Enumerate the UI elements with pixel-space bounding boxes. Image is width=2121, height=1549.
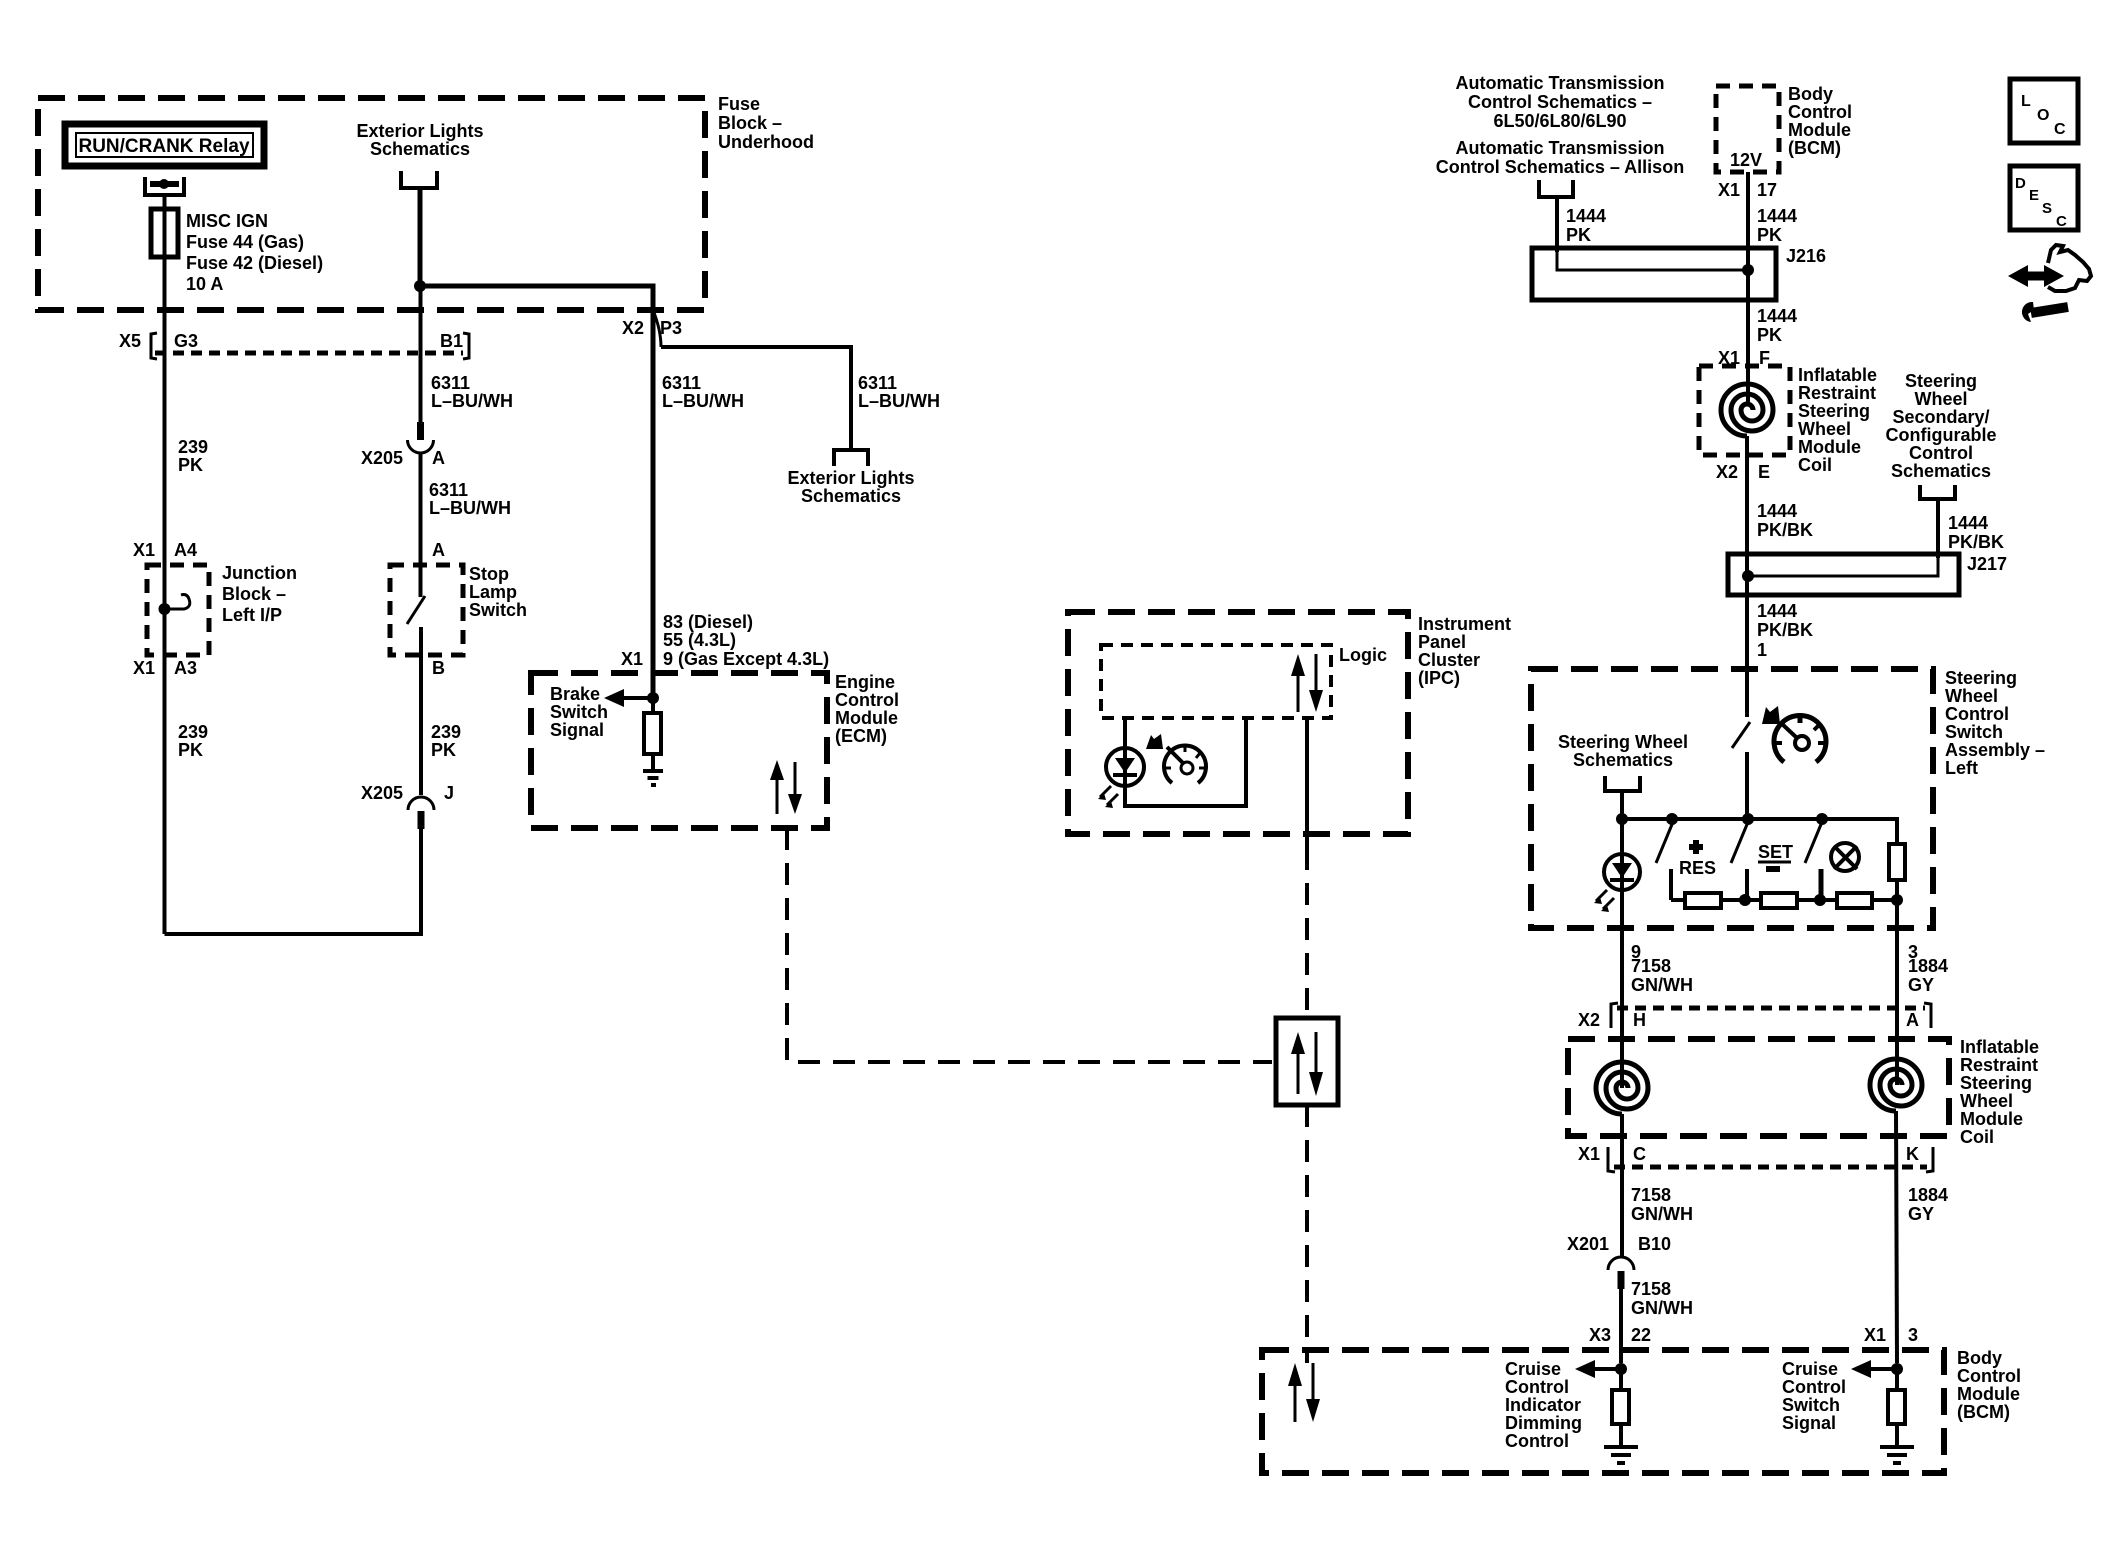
wire into coil top	[1746, 366, 1750, 405]
ECM dashed box	[531, 673, 827, 828]
svg-text:C: C	[2056, 213, 2067, 230]
wire 6311 stop lamp branch	[419, 286, 423, 424]
coil spiral left	[1596, 1062, 1648, 1114]
cancel switch blade	[1805, 822, 1822, 863]
svg-text:1444: 1444	[1757, 601, 1797, 621]
svg-text:O: O	[2037, 107, 2049, 124]
off-page connector bracket secondary	[1920, 485, 1955, 499]
SDM coil top dashed box	[1699, 366, 1790, 455]
wire relay to fuse	[163, 195, 167, 212]
logic box IPC	[1101, 645, 1331, 718]
svg-text:6311: 6311	[431, 373, 470, 393]
connector pass-through slash X2 P3	[653, 310, 661, 347]
wire below stop lamp switch	[419, 627, 423, 795]
svg-text:A3: A3	[174, 658, 197, 678]
svg-text:10 A: 10 A	[186, 274, 223, 294]
LED emission arrows assembly	[1596, 890, 1607, 901]
svg-text:Control: Control	[1505, 1377, 1569, 1397]
svg-text:G3: G3	[174, 331, 198, 351]
serial data arrows ECM	[776, 776, 779, 814]
svg-text:X205: X205	[361, 783, 403, 803]
splice pack J216	[1532, 248, 1776, 300]
svg-text:3: 3	[1908, 1325, 1918, 1345]
svg-text:D: D	[2015, 175, 2026, 192]
svg-text:Module: Module	[1957, 1384, 2020, 1404]
connector X205 A male stub	[417, 422, 424, 440]
svg-text:(BCM): (BCM)	[1788, 138, 1841, 158]
svg-text:1884: 1884	[1908, 956, 1948, 976]
svg-text:Restraint: Restraint	[1960, 1055, 2038, 1075]
stop lamp switch dashed box	[390, 565, 463, 655]
fuse block underhood dashed box	[38, 98, 705, 310]
wire resistor to ground BCM left	[1619, 1424, 1623, 1447]
svg-text:Control: Control	[1909, 443, 1973, 463]
svg-text:J: J	[444, 783, 454, 803]
svg-text:7158: 7158	[1631, 1185, 1671, 1205]
serial data gateway box	[1276, 1018, 1338, 1105]
serial data arrows gateway	[1297, 1050, 1300, 1094]
svg-text:7158: 7158	[1631, 956, 1671, 976]
bracket B1	[463, 333, 469, 359]
resistor ECM pull-up	[644, 713, 661, 754]
svg-text:Cluster: Cluster	[1418, 650, 1480, 670]
svg-text:Exterior Lights: Exterior Lights	[787, 468, 914, 488]
wire 1444 PK from BCM	[1746, 172, 1750, 366]
svg-text:(ECM): (ECM)	[835, 726, 887, 746]
resistor BCM right	[1888, 1390, 1905, 1424]
svg-text:Inflatable: Inflatable	[1960, 1037, 2039, 1057]
coil spiral top	[1721, 384, 1773, 436]
wire left coil down	[1620, 1114, 1624, 1256]
svg-text:Control: Control	[835, 690, 899, 710]
svg-text:X201: X201	[1567, 1234, 1609, 1254]
svg-text:Steering: Steering	[1945, 668, 2017, 688]
svg-text:K: K	[1906, 1144, 1919, 1164]
svg-text:A: A	[432, 540, 445, 560]
svg-text:(BCM): (BCM)	[1957, 1402, 2010, 1422]
wire to resistor BCM left	[1619, 1369, 1623, 1391]
svg-text:Block –: Block –	[718, 113, 782, 133]
svg-text:6311: 6311	[662, 373, 701, 393]
svg-text:83 (Diesel): 83 (Diesel)	[663, 612, 753, 632]
LED indicator IPC	[1106, 748, 1144, 786]
svg-text:Coil: Coil	[1960, 1127, 1994, 1147]
svg-text:L–BU/WH: L–BU/WH	[858, 391, 940, 411]
steering wheel control switch assembly dashed box	[1531, 669, 1933, 928]
svg-text:E: E	[1758, 462, 1770, 482]
serial data arrows BCM	[1294, 1382, 1297, 1422]
svg-text:Wheel: Wheel	[1945, 686, 1998, 706]
svg-text:GN/WH: GN/WH	[1631, 1204, 1693, 1224]
svg-text:Configurable: Configurable	[1886, 425, 1997, 445]
stop lamp switch blade	[407, 596, 425, 624]
wire out of assembly left	[1620, 928, 1624, 1088]
svg-text:Block –: Block –	[222, 584, 286, 604]
wire to X2 P3	[420, 286, 653, 310]
node cruise indicator dimming	[1615, 1363, 1627, 1375]
LED indicator assembly	[1604, 854, 1640, 890]
svg-text:Switch: Switch	[1945, 722, 2003, 742]
svg-text:J217: J217	[1967, 554, 2007, 574]
svg-text:H: H	[1633, 1010, 1646, 1030]
svg-text:Automatic Transmission: Automatic Transmission	[1455, 73, 1664, 93]
ground ECM	[643, 769, 663, 773]
svg-text:Wheel: Wheel	[1914, 389, 1967, 409]
svg-text:17: 17	[1757, 180, 1777, 200]
svg-text:Assembly –: Assembly –	[1945, 740, 2045, 760]
svg-text:Control: Control	[1505, 1431, 1569, 1451]
svg-text:Underhood: Underhood	[718, 132, 814, 152]
junction block terminal dot	[159, 603, 171, 615]
off-page connector bracket exterior lights right	[834, 450, 868, 466]
svg-text:PK: PK	[1757, 225, 1782, 245]
wire below on/off switch	[1745, 752, 1749, 819]
wire IPC loop bottom	[1125, 718, 1246, 806]
serial data arrows IPC logic	[1297, 672, 1300, 712]
svg-text:L–BU/WH: L–BU/WH	[662, 391, 744, 411]
svg-text:C: C	[1633, 1144, 1646, 1164]
svg-text:SET: SET	[1758, 842, 1793, 862]
svg-text:GN/WH: GN/WH	[1631, 1298, 1693, 1318]
RES switch blade	[1656, 822, 1673, 863]
svg-text:Steering: Steering	[1798, 401, 1870, 421]
LOC legend box	[2010, 79, 2078, 143]
svg-text:Switch: Switch	[469, 600, 527, 620]
dotted connector row X2 H A	[1617, 1006, 1925, 1011]
LED indicator assembly wire	[1620, 819, 1624, 928]
wire 7158 to BCM	[1619, 1287, 1623, 1363]
svg-text:Brake: Brake	[550, 684, 600, 704]
relay contact terminal	[145, 177, 184, 195]
svg-text:J216: J216	[1786, 246, 1826, 266]
wire 1444 PK/BK main	[1745, 455, 1749, 595]
svg-text:Steering Wheel: Steering Wheel	[1558, 732, 1688, 752]
wire 6311 down to ECM	[651, 310, 656, 698]
svg-text:1444: 1444	[1566, 206, 1606, 226]
svg-text:239: 239	[431, 722, 461, 742]
resistor R1	[1685, 893, 1721, 908]
svg-text:PK: PK	[178, 455, 203, 475]
svg-text:S: S	[2042, 200, 2052, 217]
legend icon hand with double arrow	[2048, 245, 2091, 291]
svg-text:B: B	[432, 658, 445, 678]
svg-text:L: L	[2021, 93, 2031, 110]
svg-text:1444: 1444	[1757, 501, 1797, 521]
resistor R4 vertical	[1889, 844, 1905, 880]
wire R4 to ladder	[1895, 880, 1899, 900]
svg-text:Control: Control	[1788, 102, 1852, 122]
svg-text:6311: 6311	[429, 480, 468, 500]
svg-text:RUN/CRANK Relay: RUN/CRANK Relay	[78, 136, 249, 157]
svg-text:Restraint: Restraint	[1798, 383, 1876, 403]
svg-text:PK: PK	[178, 740, 203, 760]
wire to resistor BCM right	[1895, 1369, 1899, 1391]
svg-text:Schematics: Schematics	[370, 139, 470, 159]
off-page connector bracket transmission	[1539, 180, 1573, 197]
svg-text:B10: B10	[1638, 1234, 1671, 1254]
gauge icon assembly	[1774, 716, 1826, 762]
svg-text:1444: 1444	[1757, 306, 1797, 326]
arrow cruise indicator dimming	[1593, 1367, 1621, 1371]
wire 6311 below X205 A	[419, 453, 423, 597]
svg-text:Module: Module	[1788, 120, 1851, 140]
ground BCM right	[1880, 1445, 1914, 1449]
svg-text:A: A	[1906, 1010, 1919, 1030]
wire 1444 PK from transmission	[1555, 197, 1559, 252]
cancel switch lower stub	[1819, 869, 1824, 900]
arrow brake switch signal	[622, 696, 653, 700]
svg-text:PK: PK	[1566, 225, 1591, 245]
svg-text:X205: X205	[361, 448, 403, 468]
junction block terminal hook	[164, 595, 190, 610]
svg-text:PK/BK: PK/BK	[1757, 620, 1813, 640]
resistor BCM left	[1612, 1390, 1629, 1424]
svg-text:9 (Gas Except 4.3L): 9 (Gas Except 4.3L)	[663, 649, 829, 669]
svg-text:X2: X2	[622, 318, 644, 338]
svg-text:Stop: Stop	[469, 564, 509, 584]
wire logic to LED	[1123, 718, 1127, 808]
wire branch to exterior lights right	[661, 347, 851, 449]
svg-text:22: 22	[1631, 1325, 1651, 1345]
svg-text:GN/WH: GN/WH	[1631, 975, 1693, 995]
wire 6311 from exterior lights	[418, 188, 423, 288]
svg-text:MISC IGN: MISC IGN	[186, 211, 268, 231]
DESC legend box	[2010, 166, 2078, 230]
svg-text:Signal: Signal	[1782, 1413, 1836, 1433]
gauge flag assembly	[1762, 706, 1780, 724]
svg-text:X1: X1	[133, 540, 155, 560]
svg-text:Steering: Steering	[1960, 1073, 2032, 1093]
cancel icon circle-X	[1831, 843, 1859, 871]
legend icon wrench	[2031, 307, 2068, 313]
svg-text:X3: X3	[1589, 1325, 1611, 1345]
svg-text:Fuse 42 (Diesel): Fuse 42 (Diesel)	[186, 253, 323, 273]
svg-text:L–BU/WH: L–BU/WH	[429, 498, 511, 518]
resistor ladder wire	[1671, 898, 1897, 902]
fuse F44 MISC IGN	[151, 209, 178, 257]
svg-text:Wheel: Wheel	[1960, 1091, 2013, 1111]
svg-text:12V: 12V	[1730, 150, 1762, 170]
svg-text:Fuse 44 (Gas): Fuse 44 (Gas)	[186, 232, 304, 252]
svg-text:239: 239	[178, 437, 208, 457]
svg-text:Control: Control	[1945, 704, 2009, 724]
label plus RES	[1689, 844, 1703, 850]
svg-text:Automatic Transmission: Automatic Transmission	[1455, 138, 1664, 158]
svg-text:X2: X2	[1716, 462, 1738, 482]
RES switch lower stub	[1669, 869, 1673, 900]
svg-text:Switch: Switch	[550, 702, 608, 722]
wire to resistor	[651, 698, 655, 714]
svg-text:Left: Left	[1945, 758, 1978, 778]
svg-text:Control Schematics – Allison: Control Schematics – Allison	[1436, 157, 1684, 177]
svg-text:(IPC): (IPC)	[1418, 668, 1460, 688]
cruise on/off switch blade	[1732, 722, 1750, 748]
svg-text:Body: Body	[1788, 84, 1833, 104]
wire logic down solid	[1305, 718, 1309, 848]
IPC dashed box	[1068, 612, 1408, 834]
svg-text:X1: X1	[1578, 1144, 1600, 1164]
svg-text:Coil: Coil	[1798, 455, 1832, 475]
node splice at B1 branch	[414, 280, 426, 292]
svg-text:B1: B1	[440, 331, 463, 351]
svg-text:Fuse: Fuse	[718, 94, 760, 114]
svg-text:PK/BK: PK/BK	[1948, 532, 2004, 552]
dotted connector row X1 C K	[1614, 1165, 1927, 1170]
svg-text:A4: A4	[174, 540, 197, 560]
svg-text:1444: 1444	[1757, 206, 1797, 226]
svg-text:7158: 7158	[1631, 1279, 1671, 1299]
splice pack J217	[1728, 554, 1959, 595]
svg-text:Logic: Logic	[1339, 645, 1387, 665]
off-page connector bracket steering wheel schematics	[1605, 776, 1640, 791]
connector X205 J male stub	[418, 811, 425, 829]
svg-text:Exterior Lights: Exterior Lights	[356, 121, 483, 141]
svg-text:X1: X1	[133, 658, 155, 678]
svg-text:P3: P3	[660, 318, 682, 338]
svg-text:A: A	[432, 448, 445, 468]
svg-text:X1: X1	[1864, 1325, 1886, 1345]
svg-text:Inflatable: Inflatable	[1798, 365, 1877, 385]
svg-text:X1: X1	[621, 649, 643, 669]
svg-text:239: 239	[178, 722, 208, 742]
resistor R2	[1761, 893, 1797, 908]
dotted connector line X5-B1	[155, 351, 463, 356]
svg-text:X2: X2	[1578, 1010, 1600, 1030]
svg-text:Left I/P: Left I/P	[222, 605, 282, 625]
BCM top dashed box	[1716, 86, 1779, 172]
arrow cruise switch signal	[1869, 1367, 1897, 1371]
svg-text:1884: 1884	[1908, 1185, 1948, 1205]
svg-text:Control: Control	[1957, 1366, 2021, 1386]
wire resistor to ground	[651, 754, 655, 771]
svg-text:1444: 1444	[1948, 513, 1988, 533]
svg-text:L–BU/WH: L–BU/WH	[431, 391, 513, 411]
svg-text:6L50/6L80/6L90: 6L50/6L80/6L90	[1493, 111, 1626, 131]
svg-text:Panel: Panel	[1418, 632, 1466, 652]
svg-text:Dimming: Dimming	[1505, 1413, 1582, 1433]
svg-text:Schematics: Schematics	[801, 486, 901, 506]
wire bottom loop	[165, 827, 422, 934]
svg-text:Cruise: Cruise	[1782, 1359, 1838, 1379]
wire out of assembly right	[1895, 900, 1899, 1085]
svg-text:Indicator: Indicator	[1505, 1395, 1581, 1415]
off-page connector bracket exterior lights	[401, 171, 437, 188]
node brake switch signal	[647, 692, 659, 704]
SET switch lower stub	[1745, 869, 1749, 900]
svg-text:Steering: Steering	[1905, 371, 1977, 391]
wire resistor to ground BCM right	[1895, 1424, 1899, 1447]
svg-text:1: 1	[1757, 640, 1767, 660]
svg-text:GY: GY	[1908, 975, 1934, 995]
LED emission arrows IPC	[1100, 786, 1111, 797]
coil spiral right	[1870, 1059, 1922, 1111]
svg-text:Control Schematics –: Control Schematics –	[1468, 92, 1652, 112]
svg-text:Wheel: Wheel	[1798, 419, 1851, 439]
SET switch blade	[1731, 822, 1748, 863]
BCM bottom dashed box	[1262, 1350, 1944, 1473]
wire 239 PK left vertical	[163, 255, 167, 934]
svg-text:X5: X5	[119, 331, 141, 351]
bracket X5	[151, 333, 157, 359]
svg-text:GY: GY	[1908, 1204, 1934, 1224]
svg-text:C: C	[2054, 121, 2066, 138]
svg-text:Cruise: Cruise	[1505, 1359, 1561, 1379]
connector X201 B10 male stub	[1618, 1271, 1625, 1289]
gauge flag IPC	[1146, 734, 1163, 749]
svg-text:Body: Body	[1957, 1348, 2002, 1368]
svg-text:Control: Control	[1782, 1377, 1846, 1397]
svg-text:55 (4.3L): 55 (4.3L)	[663, 630, 736, 650]
svg-text:Instrument: Instrument	[1418, 614, 1511, 634]
svg-text:Schematics: Schematics	[1573, 750, 1673, 770]
wire 1444 PK/BK secondary	[1936, 499, 1940, 558]
svg-text:Lamp: Lamp	[469, 582, 517, 602]
coil assembly dashed box	[1568, 1039, 1949, 1136]
gauge icon IPC	[1164, 746, 1206, 783]
svg-text:PK/BK: PK/BK	[1757, 520, 1813, 540]
connector X205 A female cup	[408, 440, 434, 453]
dashed serial data wire from ECM	[787, 828, 1272, 1062]
dashed serial data wire gateway to BCM	[1305, 1105, 1309, 1363]
wire into switch assembly	[1745, 595, 1749, 717]
connector X205 J female cap	[408, 797, 434, 810]
svg-text:Secondary/: Secondary/	[1892, 407, 1989, 427]
svg-text:X1: X1	[1718, 180, 1740, 200]
svg-text:E: E	[2029, 187, 2039, 204]
svg-text:Module: Module	[835, 708, 898, 728]
resistor R3	[1837, 893, 1872, 908]
svg-text:Switch: Switch	[1782, 1395, 1840, 1415]
connector X201 B10 female cap	[1608, 1257, 1634, 1270]
wire right coil down	[1896, 1111, 1897, 1363]
svg-text:PK: PK	[431, 740, 456, 760]
wire out of coil top	[1745, 436, 1749, 470]
svg-text:6311: 6311	[858, 373, 897, 393]
node cruise switch signal	[1891, 1363, 1903, 1375]
svg-text:Schematics: Schematics	[1891, 461, 1991, 481]
svg-text:RES: RES	[1679, 858, 1716, 878]
wire logic down dashed	[1305, 848, 1309, 1018]
svg-text:Engine: Engine	[835, 672, 895, 692]
relay K RUN/CRANK Relay	[65, 124, 264, 166]
wire steering wheel schematics to bus	[1620, 791, 1624, 819]
svg-text:PK: PK	[1757, 325, 1782, 345]
svg-text:Signal: Signal	[550, 720, 604, 740]
svg-text:Module: Module	[1798, 437, 1861, 457]
svg-text:Junction: Junction	[222, 563, 297, 583]
junction block dashed box	[147, 565, 209, 655]
ground BCM left	[1604, 1445, 1638, 1449]
switch bus wire	[1622, 819, 1897, 844]
svg-text:Module: Module	[1960, 1109, 2023, 1129]
